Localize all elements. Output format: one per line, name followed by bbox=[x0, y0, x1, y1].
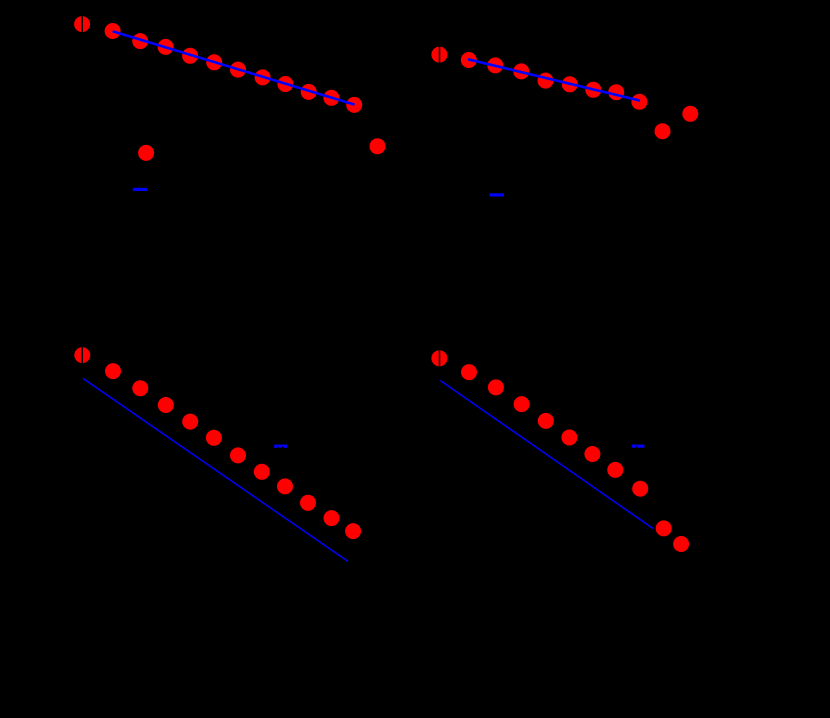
top-left legend: line sample bbox=[133, 188, 147, 191]
top-left legend: marker sample bbox=[138, 145, 154, 161]
top-right legend: line sample bbox=[490, 193, 505, 196]
bottom-left panel: fit line bbox=[82, 378, 348, 562]
top-right panel: fit line bbox=[468, 59, 640, 100]
top-right panel: scatter points bbox=[431, 47, 698, 140]
bottom-left panel: scatter points bbox=[74, 347, 361, 539]
right column y-axis spine (visible only crossing first dots) bbox=[439, 10, 441, 570]
top-left panel: scatter points bbox=[74, 16, 385, 154]
bottom-right legend: line sample (dashed look) bbox=[632, 445, 645, 448]
bottom-right panel: scatter points bbox=[431, 350, 689, 552]
left column y-axis spine (visible only crossing first dots) bbox=[81, 10, 83, 570]
bottom-left legend: line sample (dashed look) bbox=[274, 445, 287, 448]
bottom-right panel: fit line bbox=[440, 380, 653, 529]
top-left panel: fit line bbox=[113, 31, 355, 104]
